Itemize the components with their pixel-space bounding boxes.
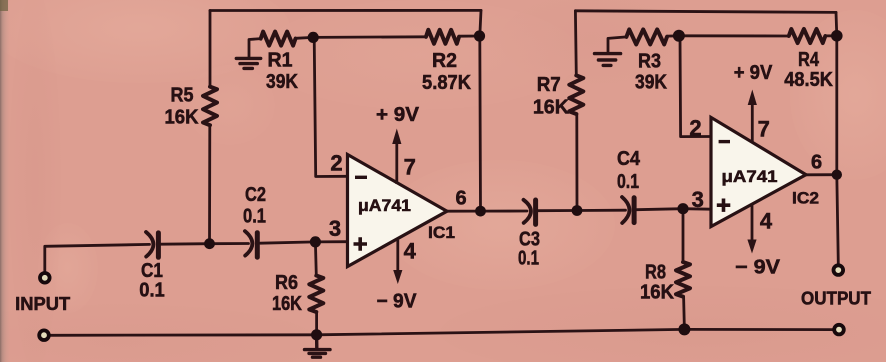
wire node A2 to R4 — [679, 34, 789, 37]
svg-text:INPUT: INPUT — [15, 294, 70, 314]
capacitor C3 — [524, 200, 536, 225]
op-amp U2 -9V supply arrow pin4 — [747, 204, 756, 254]
resistor R7 — [569, 75, 583, 114]
svg-text:6: 6 — [455, 188, 466, 210]
svg-text:3: 3 — [329, 216, 341, 241]
svg-text:R3: R3 — [638, 50, 661, 72]
svg-text:2: 2 — [330, 151, 342, 176]
svg-text:4: 4 — [404, 239, 417, 264]
ground at R3 — [595, 54, 621, 66]
svg-text:+ 9V: + 9V — [376, 104, 420, 126]
node B3 junction — [831, 30, 843, 42]
op-amp U1 triangle — [348, 155, 448, 267]
svg-text:− 9V: − 9V — [377, 291, 418, 313]
input terminal top — [40, 273, 50, 283]
ground below R6 — [305, 335, 331, 357]
svg-text:0.1: 0.1 — [617, 171, 639, 193]
label R2 value — [422, 50, 472, 94]
op-amp U2 triangle — [711, 117, 806, 226]
resistor R2 — [426, 30, 459, 44]
wire node F to C2 — [210, 242, 249, 245]
resistor R8 — [676, 262, 690, 297]
svg-text:0.1: 0.1 — [518, 248, 539, 270]
svg-text:R5: R5 — [171, 85, 194, 107]
node D junction — [572, 205, 583, 216]
wire top rail stage 1 — [210, 9, 481, 12]
capacitor C1 — [146, 232, 158, 257]
output terminal bottom — [834, 325, 844, 335]
svg-text:3: 3 — [692, 187, 704, 212]
capacitor C2 — [245, 231, 257, 257]
node A junction — [308, 32, 319, 43]
op-amp U2 +9V supply arrow pin7 — [748, 90, 757, 142]
wire C1 to node F — [161, 242, 210, 245]
svg-text:OUTPUT: OUTPUT — [801, 289, 871, 309]
wire C2 to node G pin3 IC1 — [260, 242, 347, 244]
svg-text:16K: 16K — [640, 282, 675, 304]
label C3 value — [518, 229, 540, 270]
svg-text:48.5K: 48.5K — [784, 69, 833, 91]
label C2 value — [243, 184, 266, 228]
node G junction — [310, 236, 321, 247]
node E junction — [677, 203, 688, 214]
svg-text:R2: R2 — [432, 50, 457, 72]
svg-text:39K: 39K — [266, 71, 298, 93]
resistor R6 — [309, 276, 323, 312]
svg-text:2: 2 — [689, 115, 701, 140]
label C1 value — [139, 260, 165, 302]
label R5 value — [165, 85, 200, 129]
svg-text:7: 7 — [404, 155, 416, 180]
wire R3 to node A2 — [667, 34, 679, 37]
svg-text:6: 6 — [811, 151, 822, 173]
svg-text:5.87K: 5.87K — [422, 72, 472, 94]
svg-text:C4: C4 — [617, 148, 641, 170]
node F junction — [204, 238, 215, 249]
svg-text:− 9V: − 9V — [735, 257, 781, 279]
svg-text:μA741: μA741 — [722, 167, 778, 186]
node A2 junction — [673, 30, 685, 42]
svg-text:16K: 16K — [165, 107, 200, 129]
output terminal top — [834, 265, 844, 275]
node C junction — [475, 206, 486, 217]
label R6 value — [272, 272, 302, 315]
wire R2 to node B — [459, 35, 479, 38]
resistor R5 — [203, 87, 217, 126]
input terminal bottom — [39, 330, 49, 340]
label R1 value — [266, 50, 298, 94]
resistor R3 — [626, 29, 667, 44]
label R7 value — [533, 74, 570, 119]
wire R7 vertical (top rail to node D) — [575, 11, 577, 211]
label C4 value — [617, 148, 641, 193]
capacitor C4 — [622, 197, 634, 223]
wire R4 to node B3 — [825, 34, 837, 37]
svg-text:IC2: IC2 — [792, 189, 819, 208]
wire node E down to R8 — [682, 209, 685, 262]
node H junction — [311, 329, 322, 340]
ground at R1 — [236, 58, 260, 68]
wire node A2 down to pin2 IC2 — [680, 36, 711, 137]
node J junction pin6 — [832, 170, 842, 180]
label R8 value — [640, 262, 675, 304]
svg-text:R6: R6 — [275, 272, 298, 294]
svg-text:+ 9V: + 9V — [734, 62, 773, 84]
svg-text:R8: R8 — [645, 262, 666, 284]
node I junction — [678, 323, 690, 335]
wire node A to R2 — [313, 35, 426, 38]
wire node G down to R6 — [314, 242, 318, 276]
wire right vertical stage2 (top rail to OUTPUT) — [836, 12, 838, 263]
wire R1 to node A — [296, 36, 314, 40]
svg-text:μA741: μA741 — [358, 196, 411, 215]
svg-text:16K: 16K — [272, 293, 302, 315]
wire right vertical stage1 (top rail to node C) — [480, 10, 481, 211]
wire IC2 pin6 to output vertical — [805, 173, 837, 176]
svg-text:0.1: 0.1 — [243, 206, 266, 228]
label R3 value — [635, 50, 667, 93]
resistor R4 — [789, 29, 825, 43]
svg-text:16K: 16K — [533, 97, 570, 119]
op-amp U1 +9V supply arrow pin7 — [392, 129, 401, 185]
svg-text:R7: R7 — [537, 74, 561, 96]
svg-text:4: 4 — [760, 209, 773, 234]
svg-text:0.1: 0.1 — [139, 280, 165, 302]
wire input riser — [45, 244, 150, 272]
wire IC1 output to pin3 IC2 — [447, 209, 711, 212]
svg-text:C2: C2 — [245, 184, 266, 206]
wire top rail stage 2 — [575, 11, 836, 13]
svg-text:IC1: IC1 — [428, 223, 455, 242]
svg-text:R1: R1 — [268, 50, 293, 72]
wire R6 to bottom rail — [315, 312, 318, 335]
svg-text:R4: R4 — [798, 49, 820, 71]
op-amp U1 -9V supply arrow pin4 — [393, 240, 402, 284]
svg-text:39K: 39K — [635, 72, 667, 94]
svg-text:7: 7 — [758, 117, 770, 142]
label R4 value — [784, 49, 833, 91]
wire R8 to bottom rail — [682, 297, 686, 330]
node B junction — [474, 30, 485, 41]
wire bottom rail — [51, 329, 833, 335]
wire left vertical (top rail to node F) — [208, 11, 211, 244]
wire R3 ground lead — [608, 37, 626, 52]
wire node A down to pin2 IC1 — [314, 37, 347, 176]
resistor R1 — [261, 32, 296, 46]
wire R1 ground lead — [249, 39, 261, 57]
